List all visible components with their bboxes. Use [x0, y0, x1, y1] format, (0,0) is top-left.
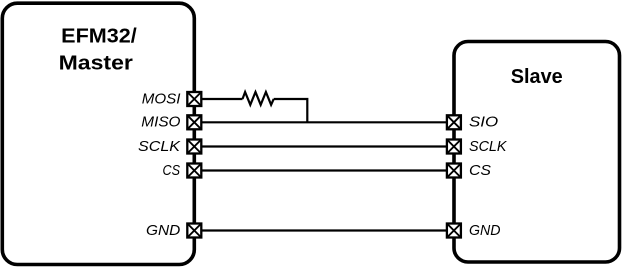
pin CS (slave) [447, 164, 461, 178]
wire MOSI to resistor [194, 98, 243, 100]
svg-text:SIO: SIO [469, 115, 498, 131]
svg-text:Master: Master [59, 52, 134, 74]
svg-text:EFM32/: EFM32/ [61, 26, 137, 48]
svg-text:SCLK: SCLK [138, 139, 182, 155]
pin SIO (slave) [447, 115, 461, 129]
pin CS (master) [187, 164, 201, 178]
svg-text:SCLK: SCLK [469, 139, 508, 155]
svg-text:CS: CS [163, 163, 181, 179]
resistor R1 [243, 92, 274, 105]
pin SCLK (slave) [447, 140, 461, 154]
pin GND (slave) [447, 224, 461, 238]
svg-text:Slave: Slave [511, 66, 563, 88]
pin MOSI (master) [187, 92, 201, 106]
pin GND (master) [187, 224, 201, 238]
wire CS net [194, 169, 454, 171]
block EFM32/Master [2, 3, 194, 264]
wire GND net [194, 229, 454, 231]
svg-text:MOSI: MOSI [142, 91, 181, 107]
wire resistor to MISO line [274, 99, 308, 122]
wire MISO/SIO net [194, 121, 454, 123]
pin MISO (master) [187, 115, 201, 129]
pin SCLK (master) [187, 140, 201, 154]
svg-text:CS: CS [469, 163, 491, 179]
svg-text:GND: GND [146, 223, 180, 239]
svg-text:MISO: MISO [141, 115, 180, 131]
svg-text:GND: GND [469, 223, 501, 239]
block Slave [454, 42, 620, 263]
wire SCLK net [194, 145, 454, 147]
